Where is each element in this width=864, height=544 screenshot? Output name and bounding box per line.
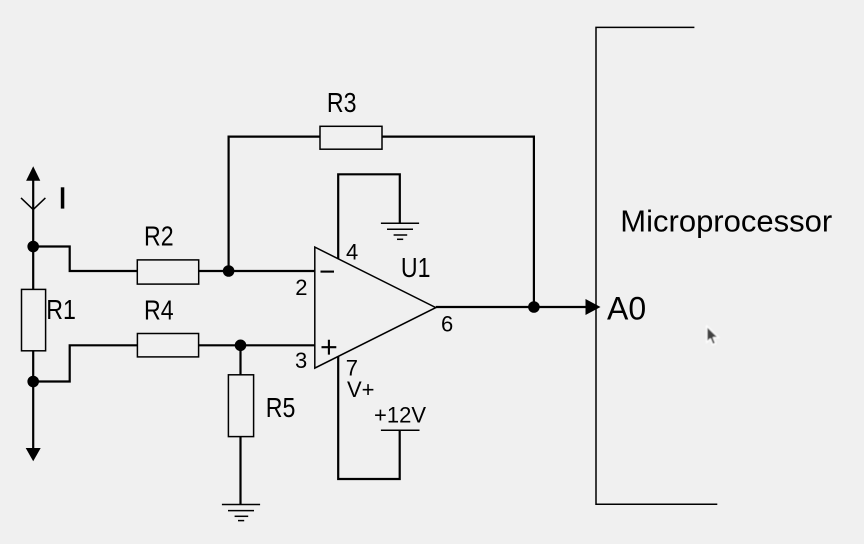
wire feedback to output node: [382, 137, 534, 307]
resistor R2: [137, 260, 198, 284]
wire feedback up from inverting node: [229, 137, 320, 271]
current source arrow up: [26, 166, 40, 181]
current direction chevron: [21, 198, 45, 210]
node dot non-inverting input: [235, 340, 247, 352]
wire R2 to op-amp pin 2: [199, 270, 315, 272]
svg-text:R4: R4: [144, 295, 174, 326]
wire node to R4: [33, 345, 137, 381]
wire left rail upper: [32, 179, 34, 290]
svg-text:R1: R1: [46, 294, 76, 325]
svg-text:A0: A0: [607, 291, 646, 327]
svg-text:3: 3: [295, 348, 307, 373]
svg-text:6: 6: [441, 312, 453, 337]
resistor R5: [228, 375, 253, 437]
wire R5 to ground: [239, 437, 241, 505]
label I: [61, 187, 65, 208]
microprocessor box: [596, 27, 717, 504]
wire node to R2: [33, 247, 137, 272]
node dot output: [528, 301, 540, 313]
svg-text:Microprocessor: Microprocessor: [620, 203, 832, 238]
resistor R4: [137, 334, 198, 357]
svg-text:R2: R2: [144, 221, 174, 252]
arrow down (current out): [26, 448, 41, 461]
svg-text:V+: V+: [347, 377, 375, 402]
wire left rail lower: [32, 351, 34, 449]
wire output: [436, 306, 587, 308]
wire node to R5: [239, 345, 241, 375]
svg-text:R3: R3: [327, 87, 357, 118]
node dot inverting input: [223, 265, 235, 277]
node dot top-left: [27, 241, 39, 253]
mouse cursor: [707, 326, 719, 345]
resistor R1: [22, 289, 46, 350]
wire pin 7 to +12V supply: [338, 357, 400, 480]
svg-text:U1: U1: [401, 252, 431, 283]
svg-text:+12V: +12V: [374, 403, 426, 428]
arrowhead into A0: [586, 299, 601, 315]
svg-text:4: 4: [346, 240, 358, 265]
plus sign (non-inverting): [322, 340, 337, 355]
node dot bottom-left: [27, 376, 39, 388]
minus sign (inverting): [321, 271, 335, 273]
svg-text:R5: R5: [266, 392, 296, 423]
+12V supply bar: [381, 429, 420, 431]
svg-text:2: 2: [295, 275, 307, 300]
resistor R3: [320, 126, 382, 149]
wire pin 4 to ground: [338, 174, 400, 259]
ground (R5): [222, 505, 260, 521]
ground (pin 4): [381, 223, 419, 239]
op-amp U1: [315, 247, 436, 368]
wire R4 to op-amp pin 3: [199, 344, 315, 346]
